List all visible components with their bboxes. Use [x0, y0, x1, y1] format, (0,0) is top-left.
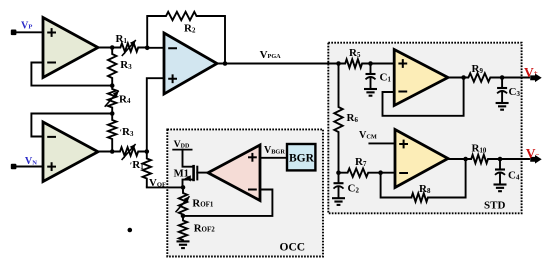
wire A6 output [448, 158, 466, 160]
op-amp A5 (STD top) [394, 50, 448, 106]
op-amp A4 (OCC) [208, 145, 260, 201]
op-amp A2 [43, 122, 98, 182]
svg-text:OCC: OCC [280, 241, 306, 253]
resistor R9 [464, 73, 503, 81]
node A6 output junction [463, 157, 468, 162]
op-amp A3 (PGA) [164, 33, 217, 94]
wire A4 -in feedback [183, 190, 272, 216]
wire A5 output [448, 77, 464, 79]
svg-text:BGR: BGR [289, 152, 315, 164]
wire R2 feedback loop right [224, 16, 226, 64]
capacitor C2 [338, 173, 340, 184]
wire to V- terminal [500, 158, 529, 160]
resistor R2 [147, 12, 225, 20]
resistor R7 [339, 169, 381, 177]
resistor R1-prime (variable) [112, 147, 147, 155]
resistor R3 [108, 48, 116, 86]
capacitor C1 [370, 64, 372, 75]
node A5 output junction [461, 75, 466, 80]
wire VCM to A6 +in [369, 142, 395, 144]
node R7/R8 junction [378, 170, 383, 175]
resistor R4 (variable) [108, 86, 116, 114]
wire A2 output [98, 151, 112, 153]
resistor R5 [339, 59, 371, 67]
wire VP to A1 +in [16, 31, 43, 33]
wire VOF node link [147, 186, 183, 188]
power rail VDD bar [173, 149, 191, 151]
wire to A3 -in [147, 47, 164, 49]
wire VBGR to A4 +in [260, 157, 287, 159]
wire A2 -in feedback [31, 114, 111, 137]
node VOF junction [181, 185, 186, 190]
wire M1 gate lead [197, 172, 208, 174]
wire VDD to M1 source [183, 150, 193, 167]
STD block dashed box [328, 43, 521, 214]
node R9/C3 junction [500, 75, 505, 80]
resistor R1 (variable) [112, 43, 147, 51]
resistor R8 [411, 193, 440, 201]
resistor R2-prime (unlabeled, riser to VOF) [143, 152, 151, 188]
resistor R10 [466, 155, 500, 163]
node R1'/riser junction [145, 149, 150, 154]
transistor M1 source arrow [184, 175, 190, 181]
resistor R6 [334, 64, 342, 173]
BGR block [287, 144, 315, 170]
node R5/C1 junction [368, 61, 373, 66]
node VPGA junction [223, 61, 228, 66]
wire VN to A2 +in [16, 166, 43, 168]
wire A1 -in feedback [31, 63, 111, 86]
wire A3 +in riser [147, 78, 164, 151]
output terminal V+ [530, 74, 542, 83]
wire A6 -in riser to R8 [381, 173, 412, 198]
wire to V+ terminal [502, 77, 529, 79]
wire R5 node to A5 +in [371, 63, 395, 65]
op-amp A6 (STD bottom) [395, 130, 448, 188]
svg-text:M1: M1 [174, 167, 189, 179]
transistor M1 channel bar [192, 165, 195, 181]
wire A1 output [98, 47, 112, 49]
wire M1 drain stub [183, 180, 193, 188]
input terminal VP [11, 30, 17, 36]
ground below C4 [494, 183, 507, 185]
op-amp A1 [43, 18, 98, 78]
stray dot mark [128, 228, 133, 233]
node Y (R3/R4, A1 feedback) [110, 83, 115, 88]
wire R7 node to A6 -in [381, 172, 395, 174]
svg-text:STD: STD [484, 200, 505, 212]
input terminal VN [11, 164, 17, 170]
node A1 output junction [110, 45, 115, 50]
OCC block dashed box [167, 129, 323, 256]
ground below C1 [364, 88, 377, 90]
ground below ROF2 [177, 240, 190, 242]
resistor R3-prime [108, 114, 116, 152]
node R2 left junction [145, 46, 150, 51]
node ROF1/ROF2 junction [181, 214, 186, 219]
wire R2 feedback loop left [146, 16, 148, 48]
node Z (R4/R3', A2 feedback) [110, 111, 115, 116]
node W (A2 output junction) [110, 149, 115, 154]
node R6/R7/C2 junction [336, 170, 341, 175]
wire A5 feedback loop [383, 78, 464, 116]
capacitor C4 [499, 159, 501, 170]
resistor ROF1 (variable) [179, 187, 187, 216]
wire R8 to A6 output riser [440, 159, 466, 198]
output terminal V- [530, 155, 542, 164]
resistor ROF2 [179, 216, 187, 241]
node R10/C4 junction [498, 157, 503, 162]
node R5/R6 junction [336, 61, 341, 66]
wire A3 output VPGA rail [217, 63, 339, 65]
ground below C2 [332, 197, 345, 199]
transistor M1 gate bar [196, 166, 198, 181]
ground below C3 [496, 102, 509, 104]
capacitor C3 [501, 78, 503, 89]
